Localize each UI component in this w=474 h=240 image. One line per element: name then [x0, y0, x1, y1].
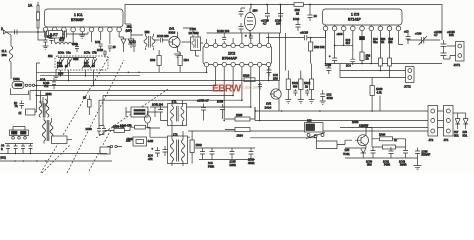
wire discriminator line: [266, 37, 304, 39]
capacitor 1C40: [52, 78, 56, 89]
wire into IC2 pin1: [182, 42, 204, 43]
wire IC3 pin drops: [326, 31, 404, 64]
wire bottom bus y120.5: [255, 120, 428, 122]
wire right bus y77.5: [340, 77, 406, 79]
capacitor 1C27: [293, 89, 297, 96]
wire gang tops: [58, 58, 96, 60]
switch 1K2: [110, 145, 112, 147]
inductor 1L2: [55, 42, 76, 46]
svg-text:1B8: 1B8: [307, 119, 312, 123]
wire left bus risers: [30, 63, 40, 102]
wire ground bus osc: [199, 159, 255, 161]
transformer 1T3: [39, 103, 49, 117]
battery 1G1 box: [10, 130, 29, 136]
svg-text:1R41: 1R41: [127, 137, 134, 141]
svg-text:1R21: 1R21: [46, 92, 53, 96]
capacitor 1C59: [163, 146, 168, 156]
wire resistor links: [372, 128, 406, 148]
mains plug outline: [317, 138, 353, 149]
capacitor 1C61: [389, 147, 394, 158]
svg-text:680: 680: [293, 85, 298, 89]
svg-text:9018: 9018: [169, 31, 176, 35]
resistor 1R8: [309, 42, 313, 51]
svg-text:1C6a: 1C6a: [58, 52, 65, 55]
capacitor 1C16: [239, 8, 246, 17]
capacitor 1C8a: [50, 39, 54, 45]
wire IC3 pin stubs: [326, 25, 399, 26]
capacitor 1C35: [350, 59, 355, 65]
svg-text:1R3: 1R3: [150, 58, 156, 62]
resistor 1R44: [380, 137, 393, 141]
svg-text:1R: 1R: [83, 97, 86, 100]
wire mid bus y95.4: [37, 94, 234, 96]
svg-text:4.3M: 4.3M: [148, 140, 154, 143]
IC1 pins: [43, 27, 121, 32]
svg-text:F40R: F40R: [384, 164, 390, 167]
wire riser x255: [255, 96, 380, 121]
capacitor 1C47: [21, 144, 25, 154]
connector J4: [444, 106, 454, 137]
wire IC2 right risers: [280, 33, 286, 81]
wire mid bus y85.6: [37, 85, 216, 87]
resistor 1R9 on bus: [294, 3, 304, 7]
wire dial-cord dashed D2: [67, 60, 124, 173]
wire collector bus: [345, 128, 372, 149]
resistor 1R45: [383, 145, 396, 149]
node drop joins: [223, 120, 260, 122]
wire battery: [13, 127, 25, 131]
svg-text:R: R: [1, 148, 3, 151]
wire resistor drops: [362, 61, 390, 78]
wire dial-cord dashed D5: [89, 126, 113, 171]
svg-text:+1C: +1C: [404, 31, 409, 34]
resistor 1R11: [286, 79, 290, 90]
svg-text:JCT2: JCT2: [404, 85, 411, 89]
svg-text:1C5: 1C5: [95, 40, 101, 44]
resistor 1R33b: [379, 58, 383, 66]
svg-text:12k/2W: 12k/2W: [359, 124, 369, 128]
ground below pin5: [79, 33, 85, 38]
svg-text:EBRW: EBRW: [212, 83, 241, 95]
switch contacts: [12, 137, 15, 140]
capacitor 1C2: [44, 40, 48, 46]
capacitor 1C52 electrolytic: [201, 104, 206, 115]
node y63 dots: [325, 63, 382, 72]
ground transistor emitter: [174, 54, 181, 58]
svg-text:1A: 1A: [28, 4, 33, 8]
capacitor 1C11: [103, 50, 107, 58]
resistor 1R51: [135, 125, 146, 129]
svg-text:1B2: 1B2: [145, 30, 150, 34]
wire dial-cord dashed D1: [41, 57, 109, 173]
svg-text:[4C]: [4C]: [1, 156, 6, 160]
resistor 1R3: [157, 56, 161, 66]
speaker box 1Y1: [52, 136, 68, 144]
capacitor 1C55: [210, 148, 215, 160]
node r8 top: [310, 37, 312, 39]
LED 1VD8: [463, 113, 468, 129]
svg-text:1IC2: 1IC2: [228, 52, 235, 56]
capacitor 1C39 electrolytic: [441, 50, 451, 59]
capacitor 1C48: [29, 144, 33, 154]
capacitor 1C51: [158, 106, 163, 116]
node antenna junction: [37, 31, 39, 33]
inductor 1L1: [6, 32, 11, 79]
resistor 1R33: [235, 117, 250, 121]
wire J3-J4 links: [438, 111, 444, 121]
capacitor 1C57: [249, 148, 254, 160]
capacitor filter input: [45, 31, 47, 38]
svg-text:TO41: TO41: [343, 152, 350, 156]
capacitor 1C24: [326, 64, 331, 75]
capacitor 1C28: [305, 89, 309, 96]
wire bottom caps bus: [345, 157, 418, 159]
capacitor 1C23: [267, 66, 272, 77]
transistor Q1 1V1: [169, 36, 180, 47]
svg-text:104: 104: [276, 22, 281, 26]
svg-text:1V5: 1V5: [345, 148, 350, 152]
svg-text:10R: 10R: [449, 33, 454, 37]
svg-text:C8a: C8a: [66, 52, 71, 55]
capacitor 1C54: [200, 148, 205, 160]
variable capacitor 1C7a: [82, 59, 89, 69]
transistor Q2 1V2: [271, 89, 281, 99]
wire right bus y70.5: [340, 70, 406, 72]
resistor 1R12: [299, 79, 303, 90]
wire 1R42: [191, 131, 193, 164]
wire bottom rail y161: [0, 160, 112, 162]
svg-text:1C7b: 1C7b: [84, 65, 90, 68]
resistor 1R10: [244, 78, 255, 82]
capacitor 1C37: [406, 33, 411, 44]
svg-text:1R8 10k: 1R8 10k: [314, 45, 325, 49]
svg-text:1C44 47R: 1C44 47R: [120, 124, 132, 128]
resonator 1B7: [145, 115, 151, 123]
LED 1VD7: [455, 113, 460, 129]
wire filter to transformer: [125, 24, 143, 35]
box 1Z3: [100, 147, 110, 154]
svg-text:+C29: +C29: [325, 64, 332, 67]
wire IC3 sub bus: [335, 44, 353, 46]
svg-text:E40R: E40R: [230, 164, 236, 167]
svg-text:1R10: 1R10: [243, 74, 250, 78]
transistor Q5 1V5: [358, 135, 369, 146]
wire right bus y63.5: [326, 63, 443, 65]
svg-text:1C: 1C: [314, 14, 317, 18]
svg-text:4.7k: 4.7k: [377, 91, 383, 95]
wire bottom bus y111: [380, 110, 428, 112]
capacitor 1C53: [220, 104, 225, 114]
svg-text:15: 15: [113, 45, 117, 49]
wire jack: [10, 86, 36, 95]
wire audio bus y148: [195, 147, 255, 149]
wire IC2 top pin stubs: [207, 33, 269, 43]
wire mid bus y75.7: [40, 75, 140, 77]
svg-text:1 IC3: 1 IC3: [351, 13, 359, 17]
wire 1R3: [158, 50, 160, 72]
wire bottom bus y131: [188, 130, 428, 132]
wire 1R4: [178, 52, 181, 72]
capacitor 1C15: [305, 31, 326, 40]
antenna 1A: [37, 2, 39, 5]
wire caps feed: [5, 143, 33, 145]
wire resistor links: [204, 107, 256, 130]
wire IC2 bottom pin drops: [207, 67, 269, 121]
node gang drop dots: [60, 75, 95, 87]
node sub bus dots: [334, 45, 345, 47]
node bus junctions: [250, 4, 311, 6]
svg-text:JT4: JT4: [444, 138, 449, 142]
svg-text:3D1: 3D1: [463, 135, 468, 138]
svg-text:1R1: 1R1: [48, 55, 53, 58]
svg-text:+1C3: +1C3: [337, 33, 344, 36]
zener 1VD5: [361, 148, 367, 158]
capacitor 1C16b: [239, 23, 244, 33]
svg-text:F40R: F40R: [208, 165, 214, 168]
svg-text:CBM: CBM: [73, 58, 78, 61]
ground power: [414, 166, 422, 170]
wire emitter drop: [255, 107, 279, 111]
wire riser to J lines: [339, 64, 341, 78]
connector J3: [428, 106, 438, 137]
wire 1R22: [88, 95, 90, 115]
wire riser extension: [35, 102, 37, 113]
capacitor 1C8b: [75, 44, 79, 52]
svg-text:1R34: 1R34: [237, 134, 244, 138]
svg-text:1C18 104: 1C18 104: [217, 29, 230, 33]
resistor 1R30: [360, 52, 364, 61]
capacitor 1C63 electrolytic: [415, 148, 420, 159]
trimmer capacitor 1C36: [407, 36, 440, 45]
svg-text:10u: 10u: [2, 53, 7, 57]
wire bus y112: [255, 110, 380, 112]
svg-text:R40R: R40R: [400, 164, 407, 167]
svg-text:H1a: H1a: [373, 41, 378, 44]
svg-text:1R33: 1R33: [236, 113, 243, 117]
wire 1B5: [126, 107, 155, 117]
filter Z1 B.F.7 box: [49, 31, 63, 39]
svg-text:472: 472: [44, 84, 49, 88]
capacitor 1C5: [99, 44, 103, 50]
svg-text:1R43: 1R43: [352, 120, 359, 124]
capacitor 1C34 electrolytic: [332, 58, 337, 64]
svg-text:22: 22: [296, 12, 300, 16]
svg-text:1C3: 1C3: [40, 78, 46, 82]
svg-text:1C50: 1C50: [86, 127, 93, 131]
svg-text:+1C15: +1C15: [300, 31, 308, 35]
svg-text:1R0: 1R0: [273, 76, 278, 80]
ground 1R12: [298, 100, 304, 104]
resistor 1R40: [370, 86, 374, 96]
svg-text:4.7: 4.7: [434, 33, 438, 37]
op-amp U2 IC2 body: [203, 46, 272, 65]
capacitor filter output: [63, 31, 89, 38]
svg-text:4R0R: 4R0R: [248, 162, 255, 165]
wire dial-cord dashed D4: [96, 89, 168, 138]
switch 1K1: [307, 134, 310, 137]
svg-text:47R8: 47R8: [327, 96, 334, 100]
svg-text:1C6b: 1C6b: [57, 65, 63, 68]
svg-text:1A14: 1A14: [265, 106, 272, 110]
resistor 1R4: [178, 56, 182, 66]
svg-text:1C9: 1C9: [58, 72, 64, 76]
ground 1C26: [320, 101, 326, 105]
resistor 1R34b: [388, 58, 392, 66]
svg-text:B7644AP: B7644AP: [222, 57, 238, 61]
svg-text:+C36: +C36: [415, 32, 422, 36]
capacitor 1C12: [132, 42, 136, 52]
svg-text:1C13 103: 1C13 103: [157, 34, 169, 38]
svg-text:4R7: 4R7: [346, 42, 351, 45]
svg-text:4.7: 4.7: [263, 22, 267, 26]
svg-text:1R4: 1R4: [184, 58, 190, 62]
capacitor 1C10: [108, 46, 112, 52]
wire dial-cord dashed D3: [42, 145, 70, 173]
svg-text:1C14: 1C14: [293, 17, 300, 21]
jack 1XS1: [12, 82, 24, 89]
capacitor 1C60: [371, 147, 376, 158]
svg-text:1T2: 1T2: [173, 133, 178, 137]
diode 1VD1: [119, 37, 126, 52]
capacitor 1C26: [320, 90, 325, 101]
wire bottom bus y137.8: [250, 137, 317, 139]
capacitor 1C50 pair: [97, 126, 106, 135]
wire bottom bus y137.2: [150, 136, 190, 138]
wire 1R50: [105, 127, 151, 137]
svg-text:3R6: 3R6: [367, 164, 372, 167]
svg-text:4c.dzsc.com: 4c.dzsc.com: [241, 86, 260, 90]
transformer 1T2 boxed: [168, 136, 188, 164]
IC3 pins: [323, 26, 401, 31]
IC2 top pins: [204, 43, 270, 47]
resistor 1R42: [190, 140, 194, 153]
wire gang bottom drops: [61, 70, 94, 86]
capacitor 1C14: [296, 21, 301, 32]
transformer 1T4: [43, 120, 53, 141]
wire resistor stubs: [288, 64, 311, 100]
capacitor 1C46: [14, 144, 18, 154]
discriminator 1B4 oval: [245, 13, 256, 31]
capacitor coupling: [154, 38, 169, 43]
wire mid bus y80.5: [37, 80, 280, 82]
svg-text:RTR/4F: RTR/4F: [422, 154, 431, 157]
crystal 1B6: [133, 137, 147, 146]
capacitor 1C49: [20, 101, 25, 110]
transformer 1B8 power: [305, 123, 324, 133]
capacitor 1C45: [6, 144, 10, 154]
capacitor 1C56: [230, 148, 235, 160]
capacitor 1C18: [222, 33, 226, 40]
resistor 1R13: [309, 79, 313, 90]
svg-text:1C4: 1C4: [346, 65, 351, 68]
variable capacitor 1C7b: [90, 59, 97, 69]
capacitor C-ant: [15, 30, 18, 35]
variable capacitor 1C6a: [57, 59, 64, 69]
resistor 1R50: [114, 129, 125, 133]
svg-text:1C53: 1C53: [217, 101, 224, 104]
svg-text:1T1: 1T1: [172, 100, 177, 104]
op-amp U1 IC1 body: [45, 9, 124, 27]
capacitor 1C19b: [249, 33, 253, 38]
variable capacitor 1C6b: [65, 59, 72, 69]
wire antenna feed: [6, 31, 46, 40]
wire gang risers: [99, 95, 103, 125]
wire mid bus y72: [37, 71, 207, 73]
wire mid bus y100.2: [99, 99, 242, 101]
svg-text:1R: 1R: [366, 58, 369, 61]
node bus dots: [128, 72, 270, 108]
discriminator 1T01: [191, 37, 201, 51]
node y112 dots: [255, 110, 321, 112]
svg-text:B7308P: B7308P: [71, 18, 84, 22]
capacitor 1C19: [265, 5, 270, 21]
wire ground bus bottom-left: [0, 153, 107, 155]
svg-text:B7141P: B7141P: [348, 18, 361, 22]
node terminal 2: [4, 30, 7, 34]
svg-text:2: 2: [1, 27, 3, 31]
svg-text:1C8b: 1C8b: [72, 43, 79, 46]
tuning gang dashed box: [55, 56, 108, 70]
transistor 1V3 partial: [39, 97, 47, 108]
connector J1: [456, 42, 465, 62]
node ground dots: [14, 153, 47, 162]
resistor 1R34: [235, 128, 250, 132]
svg-text:JCT1: JCT1: [454, 63, 461, 67]
transformer 1T1 boxed: [168, 104, 187, 126]
wire mid bus y90.5: [30, 90, 224, 92]
svg-text:+1C52 4.7: +1C52 4.7: [197, 100, 209, 103]
box 1Z2: [26, 109, 36, 115]
capacitor 1C32 tantalum: [360, 37, 365, 40]
capacitor 1C15b: [308, 5, 313, 22]
IC2 bottom pins: [204, 62, 270, 66]
svg-text:1C10: 1C10: [97, 49, 104, 52]
wire LED top: [453, 112, 466, 114]
capacitor 1C62 electrolytic: [403, 147, 408, 158]
wire 1R40: [371, 78, 373, 112]
wire mid bus y107: [150, 106, 251, 108]
node dots power: [365, 110, 373, 128]
connector J2: [406, 67, 415, 83]
svg-text:1R44: 1R44: [379, 133, 386, 137]
capacitor 1C58 electrolytic: [155, 147, 160, 157]
node jack riser dots: [36, 85, 38, 97]
svg-text:1C8: 1C8: [47, 36, 52, 39]
svg-text:1Z: 1Z: [19, 112, 22, 115]
wire 1R8: [310, 38, 312, 64]
svg-text:1XS1: 1XS1: [13, 77, 20, 81]
svg-text:1B4: 1B4: [253, 9, 258, 13]
ground 1R11: [285, 100, 291, 104]
svg-text:JT3: JT3: [429, 138, 434, 142]
svg-text:1C7a: 1C7a: [84, 52, 91, 55]
wire to J1: [447, 46, 456, 59]
svg-text:3D1: 3D1: [454, 135, 459, 138]
ground gang: [53, 70, 59, 79]
filter box 1B5: [131, 107, 148, 117]
transformer 1B2: [144, 34, 155, 50]
wire IC2 top feed bus: [207, 5, 281, 34]
ground 1R13: [309, 100, 315, 104]
capacitor 1C38 electrolytic: [441, 40, 447, 50]
wire 1T01 to IC2: [183, 28, 199, 56]
svg-text:1R: 1R: [381, 41, 384, 44]
op-amp U3 IC3 body: [323, 9, 403, 25]
svg-text:1R40: 1R40: [376, 87, 383, 91]
capacitor 1C25: [258, 82, 262, 90]
svg-text:1C51 104: 1C51 104: [152, 104, 163, 107]
wire ground stem: [417, 158, 419, 166]
